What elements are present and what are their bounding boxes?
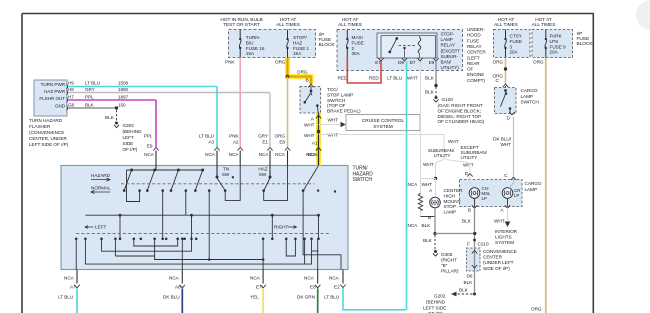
svg-text:NCA: NCA <box>64 276 75 281</box>
svg-text:G202: G202 <box>123 123 135 128</box>
svg-text:1508: 1508 <box>118 81 129 86</box>
svg-text:LP: LP <box>514 193 519 198</box>
svg-text:HOOD: HOOD <box>467 33 481 38</box>
svg-text:BLK: BLK <box>85 103 95 108</box>
svg-text:HIGH: HIGH <box>444 193 456 198</box>
svg-text:LEFT: LEFT <box>95 225 106 230</box>
svg-text:ORG: ORG <box>531 307 542 312</box>
svg-text:H8: H8 <box>68 87 74 92</box>
svg-text:WHT: WHT <box>500 142 511 147</box>
svg-text:E9: E9 <box>147 144 153 149</box>
svg-text:I/P: I/P <box>577 31 583 37</box>
svg-text:BLK: BLK <box>422 223 432 228</box>
svg-text:TEST OR START: TEST OR START <box>223 22 260 28</box>
svg-text:B/U: B/U <box>246 40 254 45</box>
svg-text:FLSHR OUT: FLSHR OUT <box>39 96 65 101</box>
svg-text:(GAS: RIGHT FRONT: (GAS: RIGHT FRONT <box>438 103 483 108</box>
svg-text:HAZARD: HAZARD <box>91 173 111 178</box>
svg-text:HAZ: HAZ <box>293 40 302 45</box>
svg-text:MAXI: MAXI <box>352 35 363 40</box>
svg-text:LT BLU: LT BLU <box>387 76 403 81</box>
svg-text:LT BLU: LT BLU <box>85 81 100 86</box>
svg-text:D7: D7 <box>410 60 416 65</box>
svg-text:E8: E8 <box>279 140 285 145</box>
svg-text:ORG: ORG <box>533 60 544 65</box>
svg-text:C210: C210 <box>478 242 489 247</box>
svg-text:LT BLU: LT BLU <box>58 295 74 300</box>
svg-text:ALL TIMES: ALL TIMES <box>494 22 518 28</box>
svg-text:REAR: REAR <box>467 61 480 66</box>
svg-text:NCA: NCA <box>229 152 240 157</box>
svg-text:SYSTEM: SYSTEM <box>495 240 514 245</box>
svg-text:WHT: WHT <box>407 76 418 81</box>
svg-text:STOP-: STOP- <box>441 32 455 37</box>
svg-text:STOP LAMP: STOP LAMP <box>327 92 353 97</box>
svg-text:FUSE 16: FUSE 16 <box>246 46 265 51</box>
svg-text:CRUISE CONTROL: CRUISE CONTROL <box>362 118 405 124</box>
svg-text:PILLAR): PILLAR) <box>441 269 459 274</box>
svg-text:RIGHT: RIGHT <box>274 225 289 230</box>
svg-text:OF: OF <box>467 67 474 72</box>
svg-text:BLK: BLK <box>459 288 469 293</box>
svg-text:H7: H7 <box>68 95 74 100</box>
svg-text:DIESEL: RIGHT TOP: DIESEL: RIGHT TOP <box>438 114 482 119</box>
svg-text:TURN PWR: TURN PWR <box>41 82 66 87</box>
svg-text:15A: 15A <box>246 51 255 56</box>
svg-text:LAMP: LAMP <box>444 210 457 215</box>
svg-text:NCA: NCA <box>275 152 286 157</box>
svg-text:2: 2 <box>352 46 355 51</box>
svg-text:BLOCK: BLOCK <box>319 42 336 48</box>
svg-text:NCA: NCA <box>304 276 315 281</box>
svg-text:SWITCH: SWITCH <box>353 177 373 183</box>
svg-text:LAMP: LAMP <box>441 37 453 42</box>
svg-text:COMPT): COMPT) <box>467 78 485 83</box>
svg-text:NCA: NCA <box>306 152 317 157</box>
svg-text:"B": "B" <box>441 263 448 268</box>
svg-text:(BEHIND: (BEHIND <box>123 129 143 134</box>
svg-text:ORG: ORG <box>493 60 504 65</box>
svg-text:LAMP: LAMP <box>521 94 534 99</box>
svg-text:LEFT SIDE: LEFT SIDE <box>423 306 446 311</box>
svg-text:LIGHTS: LIGHTS <box>495 235 512 240</box>
svg-text:ALL TIMES: ALL TIMES <box>532 22 556 28</box>
svg-text:CENTER: CENTER <box>444 188 464 193</box>
svg-text:PPL: PPL <box>85 95 94 100</box>
svg-text:ORG: ORG <box>297 70 308 75</box>
svg-text:(CONVENIENCE: (CONVENIENCE <box>29 130 64 135</box>
svg-text:STOP: STOP <box>444 204 456 209</box>
svg-text:OF CYLINDER HEAD): OF CYLINDER HEAD) <box>438 119 485 124</box>
svg-text:TURN HAZARD: TURN HAZARD <box>29 118 63 123</box>
svg-text:G305: G305 <box>441 252 453 257</box>
svg-text:30A: 30A <box>352 51 361 56</box>
svg-text:E2: E2 <box>334 285 340 290</box>
svg-text:WHT: WHT <box>304 122 315 127</box>
svg-text:NCA: NCA <box>205 152 216 157</box>
svg-text:PNK: PNK <box>225 60 235 65</box>
svg-text:FLASHER: FLASHER <box>29 124 51 129</box>
svg-text:CARGO: CARGO <box>525 181 542 186</box>
svg-text:RED: RED <box>369 76 379 81</box>
svg-text:DK GRN: DK GRN <box>297 295 315 300</box>
svg-text:BRAKE PEDAL): BRAKE PEDAL) <box>327 109 361 114</box>
svg-text:F: F <box>467 242 470 247</box>
svg-text:A3: A3 <box>208 140 214 145</box>
svg-text:WHT: WHT <box>494 219 505 224</box>
svg-text:HAZ PWR: HAZ PWR <box>44 89 66 94</box>
svg-text:ENGINE: ENGINE <box>467 72 484 77</box>
svg-text:BLOCK: BLOCK <box>577 41 594 47</box>
svg-text:FUSE: FUSE <box>319 37 332 43</box>
svg-text:ORG: ORG <box>275 60 286 65</box>
svg-text:WHT: WHT <box>423 162 434 167</box>
svg-text:SW: SW <box>259 172 267 177</box>
svg-text:WHT: WHT <box>328 118 339 123</box>
svg-text:NORMAL: NORMAL <box>91 186 111 191</box>
svg-text:NCA: NCA <box>259 152 270 157</box>
svg-text:TN: TN <box>223 167 229 172</box>
svg-text:GRY: GRY <box>258 134 269 139</box>
svg-text:BAN/: BAN/ <box>441 60 452 65</box>
svg-text:WHT: WHT <box>422 182 433 187</box>
svg-text:SW: SW <box>222 172 230 177</box>
svg-text:HAZ: HAZ <box>258 167 267 172</box>
svg-text:DK BLU: DK BLU <box>163 295 180 300</box>
svg-text:BLK: BLK <box>425 76 435 81</box>
svg-text:3: 3 <box>510 44 513 49</box>
svg-text:PARK: PARK <box>550 34 563 39</box>
svg-text:UTILITY): UTILITY) <box>441 65 460 70</box>
svg-text:BLK: BLK <box>425 90 435 95</box>
svg-text:OF ENGINE BLOCK;: OF ENGINE BLOCK; <box>438 108 481 113</box>
svg-text:YEL: YEL <box>250 295 259 300</box>
svg-text:LT BLU: LT BLU <box>324 295 340 300</box>
svg-text:SYSTEM: SYSTEM <box>373 124 392 130</box>
svg-text:GRY: GRY <box>85 87 95 92</box>
svg-text:ALL TIMES: ALL TIMES <box>276 22 300 28</box>
svg-text:NCA: NCA <box>250 276 261 281</box>
svg-text:RELAY: RELAY <box>467 44 481 49</box>
svg-text:WHT: WHT <box>304 133 315 138</box>
svg-text:B: B <box>428 215 431 220</box>
svg-text:SIDE: SIDE <box>123 141 134 146</box>
svg-text:ORG: ORG <box>274 134 285 139</box>
svg-text:UNDER-: UNDER- <box>467 27 485 32</box>
svg-text:LP: LP <box>482 196 487 201</box>
svg-text:LEFT: LEFT <box>123 135 134 140</box>
svg-text:STOP/: STOP/ <box>293 35 307 40</box>
svg-text:D6: D6 <box>467 274 473 279</box>
svg-text:WHT: WHT <box>448 139 459 144</box>
svg-text:NCA: NCA <box>144 152 155 157</box>
svg-text:NCA: NCA <box>169 276 180 281</box>
svg-text:E1: E1 <box>262 140 268 145</box>
svg-text:SIDE OF I/P): SIDE OF I/P) <box>483 266 510 271</box>
svg-text:CENTER, UNDER: CENTER, UNDER <box>29 136 68 141</box>
svg-text:WHT: WHT <box>463 163 474 168</box>
svg-text:A2: A2 <box>233 140 239 145</box>
svg-text:FUSE 9: FUSE 9 <box>550 44 567 49</box>
svg-text:20A: 20A <box>550 50 559 55</box>
svg-text:NCA: NCA <box>408 223 419 228</box>
svg-text:SWITCH: SWITCH <box>327 98 345 103</box>
svg-text:(UNDER LEFT: (UNDER LEFT <box>483 260 514 265</box>
svg-text:ALL TIMES: ALL TIMES <box>338 22 362 28</box>
svg-text:BLK: BLK <box>462 219 472 224</box>
svg-text:FUSE: FUSE <box>467 38 479 43</box>
svg-text:CENTER: CENTER <box>483 255 503 260</box>
svg-text:CARGO: CARGO <box>521 88 538 93</box>
svg-text:TCC/: TCC/ <box>327 87 338 92</box>
svg-text:(LEFT: (LEFT <box>467 55 480 60</box>
svg-text:FUSE: FUSE <box>510 39 522 44</box>
svg-text:SWITCH: SWITCH <box>521 100 539 105</box>
svg-text:BLK: BLK <box>105 115 115 120</box>
svg-text:RELAY: RELAY <box>441 43 455 48</box>
svg-text:(EXCEPT: (EXCEPT <box>441 48 461 53</box>
svg-text:OF I/P): OF I/P) <box>123 147 138 152</box>
svg-text:D9: D9 <box>398 60 404 65</box>
svg-text:FUSE: FUSE <box>577 36 590 42</box>
svg-text:SUBUR-: SUBUR- <box>441 54 459 59</box>
svg-text:GND: GND <box>55 104 66 109</box>
svg-text:NCA: NCA <box>408 182 419 187</box>
svg-text:CTSY: CTSY <box>510 34 523 39</box>
svg-text:B: B <box>468 208 471 213</box>
svg-text:LPS: LPS <box>550 39 559 44</box>
svg-text:CONVENIENCE: CONVENIENCE <box>483 249 517 254</box>
svg-text:1890: 1890 <box>118 87 129 92</box>
svg-text:E9: E9 <box>429 60 435 65</box>
svg-text:LT BLU: LT BLU <box>199 134 215 139</box>
svg-text:FUSE: FUSE <box>352 40 364 45</box>
svg-text:(BEHIND: (BEHIND <box>426 300 446 305</box>
svg-text:BLK: BLK <box>464 280 474 285</box>
svg-text:BLK: BLK <box>423 238 433 243</box>
svg-text:INTERIOR: INTERIOR <box>495 229 518 234</box>
svg-text:NCA: NCA <box>329 276 340 281</box>
svg-text:H9: H9 <box>68 81 74 86</box>
svg-text:20A: 20A <box>510 50 519 55</box>
svg-text:UTILITY: UTILITY <box>434 153 451 158</box>
svg-text:A1: A1 <box>312 141 318 146</box>
svg-text:15A: 15A <box>293 51 302 56</box>
svg-text:CENTER: CENTER <box>467 50 486 55</box>
svg-text:(RIGHT: (RIGHT <box>441 258 457 263</box>
svg-text:PNK: PNK <box>229 134 239 139</box>
svg-text:LAMP: LAMP <box>525 187 538 192</box>
svg-text:PPL: PPL <box>144 134 153 139</box>
svg-text:DK BLU/: DK BLU/ <box>493 137 512 142</box>
svg-text:G8: G8 <box>68 103 75 108</box>
svg-text:I/P: I/P <box>319 32 325 38</box>
svg-text:B: B <box>306 78 309 83</box>
svg-text:150: 150 <box>118 103 126 108</box>
svg-text:MOUNT: MOUNT <box>444 199 461 204</box>
svg-text:G202: G202 <box>434 294 446 299</box>
svg-text:RED: RED <box>338 76 348 81</box>
svg-text:G120: G120 <box>442 97 454 102</box>
svg-text:FUSE 1: FUSE 1 <box>293 46 310 51</box>
svg-text:UTILITY: UTILITY <box>461 155 478 160</box>
svg-text:1897: 1897 <box>118 95 129 100</box>
svg-text:LEFT SIDE OF I/P): LEFT SIDE OF I/P) <box>29 142 69 147</box>
svg-text:TURN-: TURN- <box>246 35 261 40</box>
svg-text:(TOP OF: (TOP OF <box>327 103 346 108</box>
